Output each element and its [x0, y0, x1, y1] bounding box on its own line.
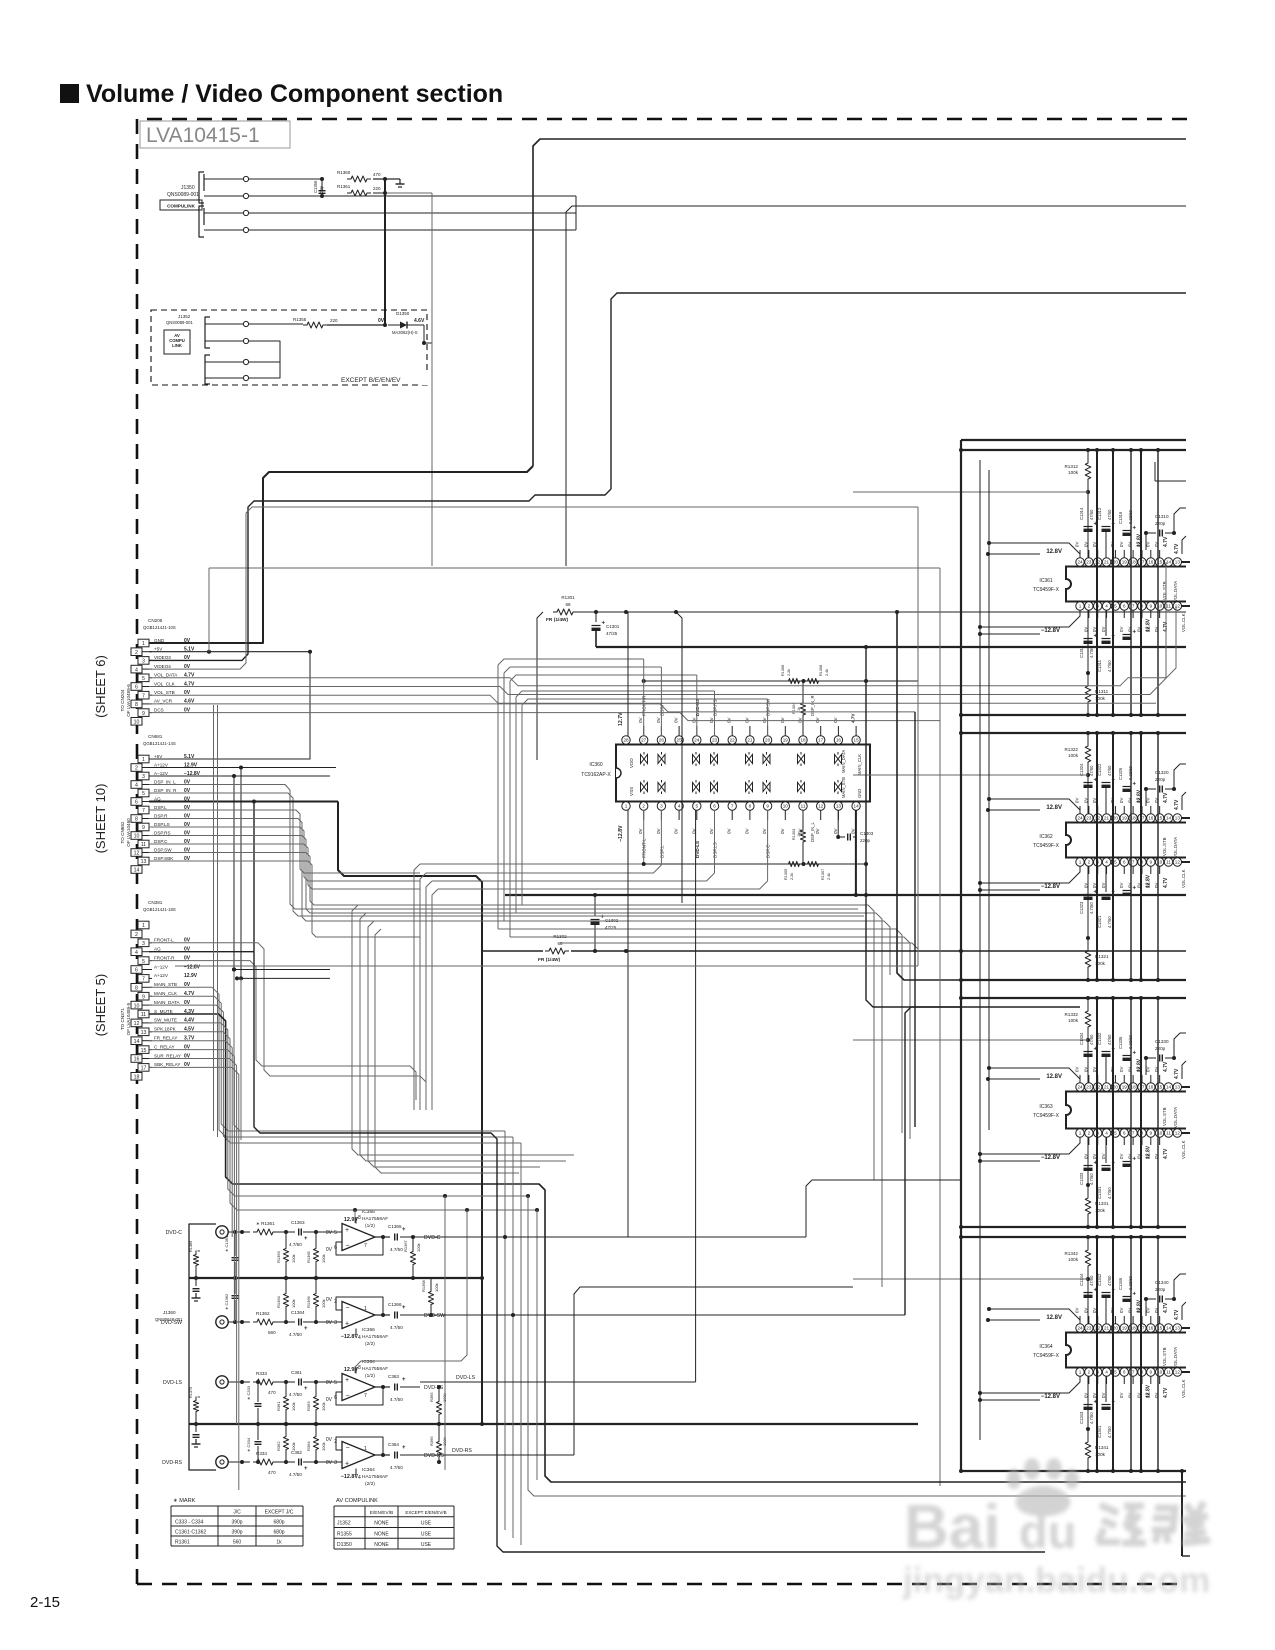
capacitor C1332 47/50: [1102, 1051, 1111, 1053]
wire CN381 fan 6: [149, 1041, 232, 1237]
svg-text:R1342: R1342: [1064, 1251, 1078, 1256]
CN205 pin 4 VIDEO4: [131, 665, 142, 673]
svg-text:−: −: [346, 1243, 350, 1250]
svg-text:OF LVA10489-6: OF LVA10489-6: [126, 684, 131, 717]
svg-text:HA17558AF: HA17558AF: [362, 1334, 388, 1340]
svg-text:VOL.STB: VOL.STB: [1162, 837, 1167, 856]
svg-text:DVD-SW: DVD-SW: [424, 1313, 445, 1319]
svg-text:jingyan.baidu.com: jingyan.baidu.com: [902, 1561, 1210, 1600]
IC360 top pins 28-15: [622, 736, 630, 744]
svg-text:C1346: C1346: [1118, 1277, 1123, 1290]
svg-text:R1365: R1365: [306, 1250, 311, 1263]
svg-text:23: 23: [1086, 816, 1092, 821]
svg-text:TC9162AP-X: TC9162AP-X: [581, 772, 611, 778]
svg-text:C1366: C1366: [388, 1302, 402, 1307]
capacitor C1322 47/50: [1102, 782, 1111, 784]
svg-text:+: +: [1133, 782, 1137, 788]
svg-text:0V: 0V: [638, 827, 643, 834]
wire DSP_IN_L from CN681: [149, 785, 858, 910]
svg-text:R1363: R1363: [276, 1250, 281, 1263]
wire vertical x961 main rail: [960, 440, 962, 1471]
svg-text:+: +: [1133, 1051, 1137, 1057]
IC363 top bus: [961, 997, 1186, 999]
svg-text:−12.8V: −12.8V: [618, 825, 624, 842]
svg-text:R1301: R1301: [561, 595, 575, 600]
svg-text:2.2k: 2.2k: [787, 669, 791, 676]
IC361 supply wires to rails: [988, 553, 1040, 555]
svg-text:25: 25: [677, 738, 683, 743]
svg-text:20: 20: [765, 738, 771, 743]
svg-text:VOL.DATA: VOL.DATA: [1173, 837, 1178, 858]
svg-text:24: 24: [1077, 816, 1083, 821]
svg-text:DVD-LS: DVD-LS: [163, 1380, 183, 1386]
feedback loop IC364: [375, 1386, 390, 1388]
CN205 pin 9 DCS: [138, 709, 149, 717]
svg-text:100k: 100k: [1068, 470, 1079, 475]
svg-text:0V: 0V: [815, 716, 820, 723]
svg-text:7: 7: [142, 693, 145, 699]
svg-text:680p: 680p: [273, 1530, 284, 1536]
svg-text:+: +: [345, 1377, 349, 1384]
svg-text:5: 5: [1114, 1370, 1117, 1375]
svg-text:3: 3: [142, 774, 145, 780]
svg-text:−12.8V: −12.8V: [184, 964, 201, 970]
svg-text:C1301: C1301: [606, 624, 620, 629]
wire DSP.RS: [149, 836, 420, 914]
wire vertical x989 rail: [988, 470, 990, 1130]
svg-text:0V: 0V: [727, 827, 732, 834]
svg-text:12.9V: 12.9V: [184, 973, 198, 979]
CN381 pin 12 SW_MUTE: [131, 1019, 142, 1027]
IC361 top bus: [961, 449, 1186, 451]
svg-text:8: 8: [749, 804, 752, 809]
svg-text:DSP.R: DSP.R: [154, 813, 168, 818]
svg-text:OF LVA10460: OF LVA10460: [126, 818, 131, 847]
svg-text:DSP_IN_L: DSP_IN_L: [154, 779, 176, 784]
svg-text:12.7V: 12.7V: [618, 712, 624, 726]
svg-text:4: 4: [1105, 1131, 1108, 1136]
svg-text:R1308: R1308: [819, 665, 823, 676]
svg-text:5: 5: [1114, 860, 1117, 865]
IC362 supply wires to rails: [988, 809, 1040, 811]
svg-text:4.7/50: 4.7/50: [1107, 1426, 1112, 1438]
svg-text:4.7/50: 4.7/50: [1089, 902, 1094, 914]
capacitor C1365 4.7/50 output: [394, 1234, 396, 1241]
feedback resistors R1364 R1366 100k: [285, 1278, 287, 1291]
svg-text:4: 4: [1105, 604, 1108, 609]
IC361 bottom bus: [961, 714, 1186, 716]
svg-text:9: 9: [142, 825, 145, 831]
svg-text:0V: 0V: [762, 827, 767, 834]
wire jack DVD-LS to resistor: [228, 1381, 250, 1383]
svg-text:4.7/50: 4.7/50: [1089, 1173, 1094, 1185]
svg-text:0V: 0V: [780, 716, 785, 723]
svg-text:USE: USE: [421, 1542, 432, 1548]
svg-text:∗ MARK: ∗ MARK: [173, 1498, 196, 1504]
svg-text:QNM0648-001: QNM0648-001: [155, 1317, 183, 1322]
PCB dashed border LVA10415-1: [137, 119, 1190, 1584]
svg-text:0V: 0V: [326, 1230, 333, 1236]
svg-text:Bai: Bai: [904, 1493, 1000, 1562]
IC362 bottom bus: [961, 979, 1186, 981]
svg-text:4: 4: [1105, 1370, 1108, 1375]
CN205 pin 6 VOL_CLK: [131, 683, 142, 691]
svg-text:1: 1: [142, 757, 145, 763]
wire +5V down to CN681 pin1: [149, 652, 310, 759]
svg-text:COMPULINK: COMPULINK: [167, 204, 195, 209]
svg-text:2: 2: [1088, 1131, 1091, 1136]
svg-text:USE: USE: [421, 1521, 432, 1527]
title block: [60, 84, 79, 103]
svg-text:0V: 0V: [1101, 1393, 1106, 1398]
svg-text:14: 14: [134, 1039, 140, 1045]
svg-text:11: 11: [141, 842, 146, 848]
svg-text:0V: 0V: [326, 1380, 333, 1386]
svg-text:19: 19: [1122, 816, 1128, 821]
svg-text:24: 24: [694, 738, 700, 743]
svg-text:16: 16: [836, 738, 842, 743]
svg-text:100k: 100k: [291, 1254, 296, 1263]
svg-text:0V: 0V: [1101, 883, 1106, 888]
svg-text:4: 4: [135, 783, 138, 789]
svg-text:9: 9: [142, 994, 145, 1000]
wire VOL_CLK from CN205: [149, 606, 1176, 695]
capacitor C1315 0.22/50: [1123, 634, 1132, 636]
divider line top y681: [644, 680, 918, 682]
svg-text:+: +: [345, 1321, 349, 1328]
svg-text:1: 1: [364, 1446, 367, 1452]
svg-text:680p: 680p: [273, 1520, 284, 1526]
svg-text:6: 6: [135, 968, 138, 974]
svg-text:R1322: R1322: [1064, 747, 1078, 752]
capacitor C1334 47/50: [1084, 1051, 1093, 1053]
svg-text:220: 220: [330, 318, 338, 323]
svg-text:R362: R362: [276, 1441, 281, 1451]
svg-text:R1355: R1355: [293, 317, 307, 322]
svg-text:0V: 0V: [1119, 1308, 1124, 1313]
svg-text:1: 1: [1079, 604, 1082, 609]
svg-text:0V: 0V: [1119, 627, 1124, 632]
svg-text:11: 11: [1166, 604, 1171, 609]
CN681 pin 4 DSP_IN_L: [131, 781, 142, 789]
CN205 pin 2 +5V: [131, 648, 142, 656]
CN681 pin 7 DSP.L: [138, 806, 149, 814]
svg-text:0V: 0V: [1128, 1393, 1133, 1398]
svg-text:12.8V: 12.8V: [1145, 1384, 1151, 1398]
svg-text:C1333: C1333: [1079, 1172, 1084, 1185]
svg-text:0V: 0V: [656, 827, 661, 834]
svg-text:C1356: C1356: [313, 180, 318, 193]
svg-text:AG: AG: [154, 947, 161, 952]
svg-text:19: 19: [1122, 560, 1128, 565]
svg-text:47/50: 47/50: [1107, 1034, 1112, 1045]
svg-text:R1364: R1364: [276, 1295, 281, 1308]
CN381 pin 5 FRONT-R: [138, 957, 149, 965]
svg-text:USE: USE: [421, 1531, 432, 1537]
wire J1350 jack join vertical: [575, 196, 577, 230]
svg-text:4.7/50: 4.7/50: [289, 1472, 302, 1477]
CN205 pin 1 GND: [138, 639, 149, 647]
svg-text:C1313: C1313: [1079, 645, 1084, 658]
svg-text:21: 21: [1104, 560, 1110, 565]
jack J1352 pin 3: [243, 359, 248, 364]
svg-text:100k: 100k: [434, 1283, 439, 1292]
svg-text:0V: 0V: [1075, 1067, 1080, 1072]
svg-text:11: 11: [801, 804, 806, 809]
svg-text:E/EN/EV/B: E/EN/EV/B: [370, 1510, 393, 1516]
svg-text:R364: R364: [306, 1441, 311, 1451]
svg-text:0V: 0V: [762, 716, 767, 723]
IC364 supply wires to rails: [988, 1319, 1040, 1321]
svg-text:SW_MUTE: SW_MUTE: [154, 1018, 177, 1023]
svg-text:8: 8: [135, 817, 138, 823]
svg-text:SPK.18PK: SPK.18PK: [154, 1027, 177, 1032]
svg-text:12.8V: 12.8V: [1046, 805, 1062, 811]
jack J1352 pin 4: [243, 375, 248, 380]
svg-text:7: 7: [1132, 604, 1135, 609]
wire supply verticals x213 x217: [213, 705, 215, 1131]
svg-text:0V: 0V: [727, 716, 732, 723]
svg-text:14: 14: [854, 804, 860, 809]
svg-text:DSP.SBK: DSP.SBK: [154, 856, 174, 861]
CN381 pin 3 FRONT-L: [138, 939, 149, 947]
svg-text:2: 2: [135, 766, 138, 772]
svg-text:HA17558AF: HA17558AF: [362, 1216, 388, 1222]
wire FRONT-R to lower area: [149, 961, 416, 1100]
svg-text:16: 16: [1148, 816, 1154, 821]
jack J1350 pin 3: [203, 208, 205, 225]
svg-text:4.7V: 4.7V: [1174, 1309, 1180, 1320]
svg-text:21: 21: [1104, 1326, 1110, 1331]
jack J1350 pin 4: [203, 229, 205, 231]
svg-text:A−12V: A−12V: [154, 771, 169, 776]
svg-text:+: +: [345, 1461, 349, 1468]
wire jack DVD-RS to resistor: [228, 1461, 250, 1463]
svg-text:−: −: [346, 1393, 350, 1400]
svg-text:C1330: C1330: [1155, 1039, 1169, 1044]
svg-text:EXCEPT J/C: EXCEPT J/C: [265, 1510, 294, 1516]
wire jack DVD-SW to resistor: [228, 1321, 250, 1323]
wire CN381 fan 7: [149, 1050, 234, 1322]
svg-text:TO CN204: TO CN204: [120, 689, 125, 711]
svg-text:47/25: 47/25: [606, 631, 618, 636]
wire jack1 to R1355: [249, 323, 303, 325]
svg-text:0V: 0V: [1128, 1067, 1133, 1072]
svg-text:23: 23: [1086, 1085, 1092, 1090]
svg-text:8: 8: [358, 1365, 361, 1371]
CN381 pin 8 MAIN_STB: [131, 984, 142, 992]
svg-text:100k: 100k: [291, 1299, 296, 1308]
svg-text:4.7/50: 4.7/50: [289, 1332, 302, 1337]
capacitor C1302 47/25: [594, 895, 596, 916]
wire top loop 2: [566, 206, 1186, 566]
svg-text:+5V: +5V: [154, 647, 163, 652]
CN681 pin 10 DSP.RS: [131, 832, 142, 840]
svg-text:+: +: [1133, 1292, 1137, 1298]
svg-text:0V: 0V: [851, 827, 856, 834]
svg-text:VOL.DATA: VOL.DATA: [1173, 1347, 1178, 1368]
CN381 pin 11 S_MUTE: [138, 1010, 149, 1018]
svg-text:13: 13: [141, 1030, 147, 1036]
svg-text:5: 5: [696, 804, 699, 809]
ground bus stage12 y1278: [189, 1277, 482, 1279]
svg-text:5: 5: [142, 959, 145, 965]
svg-text:12: 12: [1175, 1370, 1181, 1375]
svg-text:220: 220: [373, 186, 381, 191]
wire A-12V rail CN681: [149, 775, 234, 777]
capacitor C1316 0.22/50: [1123, 530, 1132, 532]
svg-text:5: 5: [334, 1230, 337, 1236]
svg-text:390p: 390p: [231, 1530, 242, 1536]
svg-text:NONE: NONE: [374, 1521, 389, 1527]
wires IC360 left wrap verticals: [497, 665, 499, 929]
wire vertical x897: [897, 612, 961, 980]
svg-text:4.7/50: 4.7/50: [1107, 660, 1112, 672]
svg-text:IC360: IC360: [589, 762, 603, 768]
IC360 internal switches: [641, 755, 648, 764]
svg-text:47/50: 47/50: [1089, 509, 1094, 520]
wire AG thick y895: [505, 894, 1186, 896]
svg-text:470: 470: [373, 172, 381, 177]
svg-text:C363: C363: [388, 1374, 399, 1379]
svg-text:(1/2): (1/2): [365, 1373, 375, 1379]
svg-text:R333: R333: [256, 1371, 267, 1376]
svg-text:0V: 0V: [815, 827, 820, 834]
svg-text:+: +: [1133, 526, 1137, 532]
CN381 pin 4 AG: [131, 948, 142, 956]
svg-text:16: 16: [134, 1057, 140, 1063]
svg-text:7: 7: [364, 1243, 367, 1249]
svg-text:R1366: R1366: [306, 1295, 311, 1308]
svg-text:GND: GND: [857, 789, 862, 798]
svg-text:5: 5: [1114, 1131, 1117, 1136]
wire DVD-SW net right: [420, 1314, 905, 1316]
capacitor C1333 47/50: [1084, 1165, 1093, 1167]
svg-text:SBK_RELAY: SBK_RELAY: [154, 1062, 180, 1067]
svg-text:7: 7: [1132, 1131, 1135, 1136]
svg-text:+: +: [1133, 630, 1137, 636]
svg-text:26: 26: [659, 738, 665, 743]
svg-text:12: 12: [134, 1021, 140, 1027]
wire vertical x682: [676, 612, 682, 903]
svg-text:100k: 100k: [1068, 753, 1079, 758]
svg-text:3: 3: [142, 659, 145, 665]
svg-text:−12.8V: −12.8V: [1041, 1394, 1060, 1400]
IC362 bottom pins 1-12: [1076, 858, 1084, 866]
svg-text:10: 10: [134, 834, 140, 840]
svg-text:AV_VCR: AV_VCR: [154, 699, 173, 704]
wire AV out right: [385, 192, 432, 194]
jack J1350 pin 2: [203, 195, 205, 197]
wire VIDEO4: [149, 507, 918, 669]
svg-text:470: 470: [268, 1390, 276, 1395]
svg-text:R361: R361: [276, 1401, 281, 1411]
svg-text:4.7/50: 4.7/50: [289, 1392, 302, 1397]
svg-text:2.4k: 2.4k: [825, 669, 829, 676]
CN205 pin 10: [131, 718, 142, 726]
svg-text:0V: 0V: [1128, 1308, 1133, 1313]
svg-text:0V: 0V: [1128, 542, 1133, 547]
svg-text:(2/2): (2/2): [365, 1481, 375, 1487]
op-amp IC364 (1/2): [342, 1374, 375, 1401]
svg-text:∗ R1361: ∗ R1361: [256, 1221, 275, 1226]
svg-text:17: 17: [141, 1066, 147, 1072]
svg-text:R1367: R1367: [403, 1239, 408, 1252]
svg-text:13: 13: [1175, 816, 1181, 821]
svg-text:DSP_IN_R: DSP_IN_R: [810, 696, 815, 716]
board name label LVA10415-1: [140, 121, 290, 148]
svg-text:11: 11: [1166, 1131, 1171, 1136]
svg-text:0V: 0V: [1119, 798, 1124, 803]
svg-text:12: 12: [1175, 1131, 1181, 1136]
svg-text:R1303: R1303: [792, 829, 796, 840]
svg-text:TC9459F-X: TC9459F-X: [1033, 843, 1060, 849]
svg-text:4.7V: 4.7V: [1163, 536, 1169, 547]
svg-text:5: 5: [142, 676, 145, 682]
svg-text:24: 24: [1077, 1085, 1083, 1090]
wire FRONT-L to lower area: [149, 943, 426, 1110]
svg-text:C1323: C1323: [1079, 901, 1084, 914]
IC364 serial data wires: [1181, 1327, 1190, 1329]
svg-text:9: 9: [1150, 1370, 1153, 1375]
ground bus stage34 y1424: [189, 1423, 918, 1425]
svg-text:AV COMPULINK: AV COMPULINK: [336, 1498, 378, 1504]
svg-text:18: 18: [800, 738, 806, 743]
capacitor C1314 47/50: [1084, 526, 1093, 528]
jack J1352 pin 2: [243, 338, 248, 343]
svg-text:23: 23: [712, 738, 718, 743]
svg-text:DVD-C: DVD-C: [424, 1235, 441, 1241]
svg-text:21: 21: [747, 738, 753, 743]
wire R1361 to node: [373, 192, 385, 194]
svg-text:DVD-RS: DVD-RS: [162, 1460, 182, 1466]
wire from J1350 jack2: [249, 195, 322, 197]
svg-text:DSP_IN_L: DSP_IN_L: [810, 822, 815, 842]
svg-text:0V: 0V: [691, 716, 696, 723]
svg-text:C1316: C1316: [1118, 511, 1123, 524]
svg-text:220p: 220p: [1155, 1046, 1166, 1051]
wire AG thick y647: [596, 646, 1186, 648]
svg-text:47/50: 47/50: [1107, 509, 1112, 520]
svg-text:68: 68: [565, 602, 571, 607]
wire IC361 frame top: [961, 439, 1186, 441]
svg-text:C333 - C334: C333 - C334: [175, 1520, 204, 1526]
wire DSP.L from CN681: [149, 810, 420, 873]
svg-text:10: 10: [134, 720, 140, 726]
svg-text:EXCEPT E/EN/EV/B: EXCEPT E/EN/EV/B: [405, 1510, 446, 1515]
svg-text:4: 4: [1105, 860, 1108, 865]
svg-text:R1368: R1368: [421, 1279, 426, 1292]
svg-text:MAIN_DATA: MAIN_DATA: [841, 749, 846, 773]
divider line bottom y864: [644, 863, 866, 865]
svg-text:DSP.RS: DSP.RS: [154, 830, 171, 835]
svg-text:−12.8V: −12.8V: [1041, 628, 1060, 634]
wire CN381 fan 4: [149, 1023, 528, 1196]
svg-text:9: 9: [766, 804, 769, 809]
jack body outlines J1352: [205, 317, 210, 348]
wire top loop 1: [533, 139, 1186, 466]
svg-text:1: 1: [1079, 860, 1082, 865]
svg-text:100k: 100k: [416, 1243, 421, 1252]
wire from J1350 jack1: [249, 178, 322, 180]
wire AG down to CN381: [253, 802, 255, 952]
wire thin below IC361: [1155, 480, 1186, 482]
svg-text:11: 11: [1166, 860, 1171, 865]
svg-text:0V: 0V: [1075, 542, 1080, 547]
IC364 bottom bus: [961, 1470, 1186, 1472]
capacitor C1335 0.22/50: [1123, 1161, 1132, 1163]
CN205 pin 7 VOL_STB: [138, 691, 149, 699]
